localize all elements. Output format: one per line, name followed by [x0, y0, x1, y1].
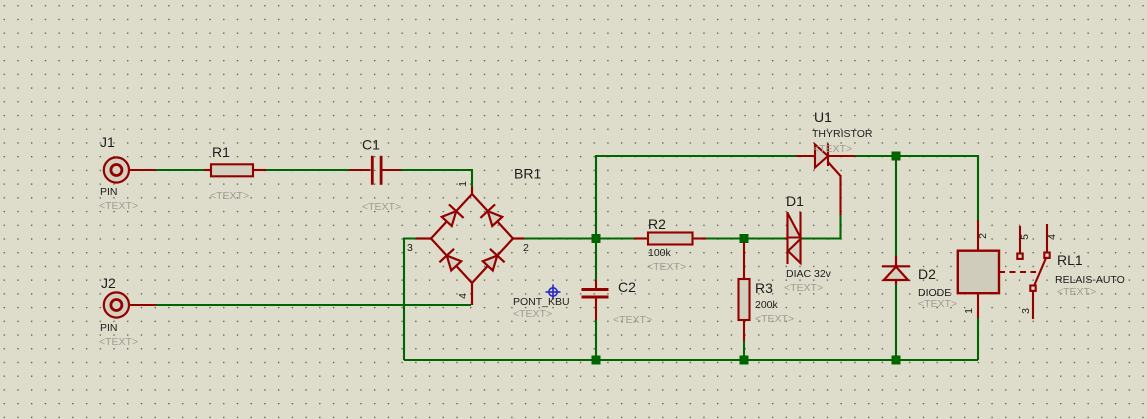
resistor R1 [204, 164, 266, 176]
wire C2 node up and top rail to thyristor [596, 156, 796, 239]
svg-text:RL1: RL1 [1057, 252, 1083, 268]
svg-text:<TEXT>: <TEXT> [513, 308, 552, 320]
wire J1 to R1 [156, 169, 204, 171]
connector J1 [104, 157, 156, 182]
node junction D2 top [892, 152, 901, 161]
switch pin 4 [1046, 224, 1048, 252]
svg-text:<TEXT>: <TEXT> [813, 143, 852, 155]
svg-text:5: 5 [1019, 234, 1031, 240]
wire BR1 pin3 to bottom bus [404, 239, 416, 361]
svg-text:R2: R2 [648, 216, 666, 232]
relay pin 2 [977, 220, 979, 251]
wire R2 right to D1 node [706, 237, 785, 239]
svg-text:D2: D2 [918, 266, 936, 282]
svg-text:<TEXT>: <TEXT> [210, 190, 249, 202]
svg-text:R1: R1 [212, 144, 230, 160]
pin 1 stub [471, 187, 473, 194]
diac D1 [785, 212, 801, 264]
bridge diode bottom-left [439, 249, 463, 273]
svg-text:<TEXT>: <TEXT> [647, 261, 686, 273]
wire bottom bus [404, 359, 978, 361]
svg-text:<TEXT>: <TEXT> [918, 298, 957, 310]
bridge rectifier BR1 [416, 187, 524, 305]
svg-text:J2: J2 [101, 275, 116, 291]
node junction C2 top [592, 234, 601, 243]
wire D2 bottom to bus [895, 284, 897, 360]
bridge diode top-right [480, 204, 504, 228]
svg-text:4: 4 [457, 293, 469, 299]
relay actuator dashed link [999, 271, 1036, 273]
wire D2 drop from top rail [895, 156, 897, 256]
switch lever [1034, 258, 1046, 286]
svg-text:PIN: PIN [100, 186, 118, 198]
node junction R3 bottom [740, 356, 749, 365]
wire C2 node to R2 left [596, 237, 634, 239]
svg-text:<TEXT>: <TEXT> [99, 336, 138, 348]
node junction C2 bottom [592, 356, 601, 365]
svg-text:2: 2 [977, 233, 989, 239]
svg-text:DIAC 32v: DIAC 32v [786, 268, 832, 280]
svg-text:<TEXT>: <TEXT> [1057, 286, 1096, 298]
svg-text:J1: J1 [100, 134, 115, 150]
pin 3 stub [416, 237, 431, 239]
origin marker PONT_KBU [546, 285, 561, 300]
svg-text:1: 1 [963, 308, 975, 314]
wire C2 bottom to bus [595, 320, 597, 360]
pin 2 stub [513, 237, 524, 239]
wire R1 to C1 [266, 169, 349, 171]
svg-text:<TEXT>: <TEXT> [613, 314, 652, 326]
capacitor C2 [582, 280, 609, 320]
svg-text:U1: U1 [814, 109, 832, 125]
wire relay pin1 to bus [977, 318, 979, 360]
bridge diode bottom-right [480, 249, 504, 273]
svg-text:3: 3 [1020, 308, 1032, 314]
svg-text:RELAIS-AUTO: RELAIS-AUTO [1055, 274, 1125, 286]
wire D1 right to thyristor gate [801, 214, 841, 239]
svg-text:<TEXT>: <TEXT> [784, 282, 823, 294]
wire C1 to BR1 pin1 [401, 170, 472, 187]
svg-text:<TEXT>: <TEXT> [755, 313, 794, 325]
svg-text:D1: D1 [786, 193, 804, 209]
svg-text:<TEXT>: <TEXT> [362, 201, 401, 213]
svg-text:PIN: PIN [100, 322, 118, 334]
node junction D2 bottom [892, 356, 901, 365]
resistor R3 [739, 242, 750, 341]
diode D2 [882, 256, 910, 284]
svg-text:2: 2 [523, 242, 529, 254]
thyristor U1 [796, 144, 855, 216]
wire BR1 pin2 to C2 node [524, 237, 596, 239]
svg-text:THYRISTOR: THYRISTOR [812, 128, 873, 140]
resistor R2 [634, 233, 706, 245]
svg-text:100k: 100k [648, 247, 672, 259]
svg-text:C2: C2 [618, 279, 636, 295]
capacitor C1 [349, 156, 401, 185]
svg-text:BR1: BR1 [514, 166, 541, 182]
svg-text:<TEXT>: <TEXT> [99, 200, 138, 212]
pin 4 stub [471, 283, 473, 305]
switch pin 5 [1019, 226, 1021, 253]
svg-text:PONT_KBU: PONT_KBU [513, 296, 570, 308]
svg-text:1: 1 [457, 181, 469, 187]
wire J2 to BR1 pin4 [156, 304, 471, 306]
bridge diode top-left [439, 204, 463, 228]
relay pin 1 [977, 293, 979, 318]
svg-text:200k: 200k [755, 299, 779, 311]
svg-text:3: 3 [407, 242, 413, 254]
switch pin 3 [1030, 286, 1035, 291]
relay switch contacts [1017, 224, 1049, 319]
wire thyristor to D2 node and relay corner [855, 156, 978, 220]
svg-text:4: 4 [1046, 234, 1058, 240]
svg-text:C1: C1 [362, 137, 380, 153]
node junction R3 top [740, 234, 749, 243]
relay coil RL1 [958, 220, 1036, 318]
diamond outline [431, 194, 513, 283]
connector J2 [104, 292, 156, 317]
wire R3 bottom to bus [743, 341, 745, 360]
wire C2 node down to C2 [595, 239, 597, 281]
svg-text:R3: R3 [755, 280, 773, 296]
